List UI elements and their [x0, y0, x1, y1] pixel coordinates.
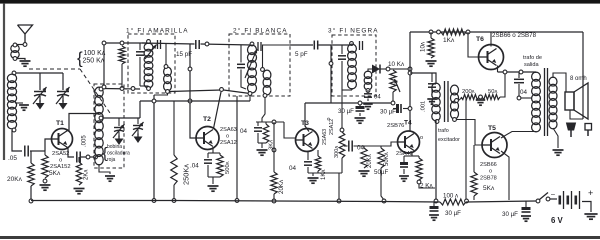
oscillator coil [95, 87, 103, 165]
wire [570, 110, 583, 119]
svg-text:.001: .001 [421, 101, 427, 112]
wire [208, 177, 220, 184]
volume pot 10K [390, 70, 400, 92]
ground [399, 176, 409, 181]
svg-text:30 µF: 30 µF [338, 108, 354, 115]
label T1 [56, 120, 64, 127]
ground [359, 171, 370, 176]
wire [354, 142, 399, 146]
ground [40, 185, 51, 190]
coupling coil L1 [11, 43, 19, 60]
capacitor .05 [8, 146, 28, 163]
IF1 tuning arrow [145, 45, 157, 60]
transistor T4 [398, 131, 420, 153]
wire osc top [103, 88, 140, 91]
wire [342, 90, 352, 103]
node [466, 30, 470, 34]
wire supply right rail [410, 31, 583, 33]
label T3 [301, 120, 309, 127]
svg-text:osciladora: osciladora [107, 151, 130, 157]
resistor 100ohm [440, 193, 466, 206]
wire [12, 130, 22, 151]
capacitor .005 [77, 135, 88, 163]
svg-text:3° FI NEGRA: 3° FI NEGRA [328, 27, 379, 35]
node bus [465, 199, 469, 203]
svg-text:.005: .005 [82, 135, 88, 147]
ground [134, 134, 143, 144]
wire drop 190 [188, 44, 197, 138]
wire T1 collector [69, 114, 99, 132]
svg-text:+: + [588, 188, 593, 198]
driver transformer primary [432, 83, 440, 121]
wire [319, 44, 354, 46]
node osc tap1 [99, 87, 103, 91]
svg-text:04: 04 [289, 165, 297, 172]
wire T2 collector [214, 92, 222, 129]
node bus [337, 199, 341, 203]
svg-text:2SB76: 2SB76 [387, 123, 404, 129]
speaker [565, 83, 588, 119]
resistor 50 [482, 89, 500, 100]
svg-text:T5: T5 [488, 125, 496, 132]
svg-text:5Kʌ: 5Kʌ [49, 170, 61, 177]
node [517, 96, 521, 100]
driver transformer secondary [451, 85, 459, 119]
wire IF3 left [329, 45, 333, 103]
label 2SA63 [220, 127, 237, 146]
wire [500, 72, 505, 97]
capacitor 30uF [338, 105, 365, 116]
label 2SA52 [50, 151, 71, 170]
capacitor 15pF [176, 40, 199, 58]
ground [308, 178, 319, 183]
svg-text:T6: T6 [476, 36, 484, 43]
svg-text:04: 04 [374, 95, 381, 101]
wire IF2 drop [236, 96, 238, 200]
node [358, 101, 362, 105]
svg-text:2SB78: 2SB78 [480, 176, 497, 182]
wire T3 collector [305, 103, 309, 132]
wire [30, 150, 45, 152]
ground [476, 100, 485, 105]
resistor 1K rail [441, 29, 466, 44]
svg-text:2 Kʌ: 2 Kʌ [420, 183, 433, 190]
wire supply [104, 42, 148, 44]
node bus [272, 199, 276, 203]
svg-text:2SA152: 2SA152 [50, 164, 71, 170]
wire [553, 73, 566, 92]
ground [429, 215, 439, 220]
svg-text:2° FI BLANCA: 2° FI BLANCA [233, 27, 288, 35]
node bus [172, 199, 176, 203]
node bus [382, 199, 386, 203]
wire [392, 92, 394, 103]
IF2 primary coil [248, 42, 257, 95]
svg-text:salida: salida [524, 62, 540, 68]
svg-text:.05: .05 [8, 155, 17, 162]
svg-text:20Kʌ: 20Kʌ [7, 176, 23, 183]
resistor 2K [76, 157, 89, 185]
svg-text:50Kʌ: 50Kʌ [384, 152, 390, 166]
IF3 box [332, 35, 376, 96]
wire [139, 101, 141, 118]
capacitor .001 [421, 73, 437, 112]
label 2 FI BLANCA [233, 27, 288, 35]
capacitor .04 det [364, 90, 381, 101]
wire mid bus [140, 100, 250, 102]
svg-text:50ʌ: 50ʌ [488, 89, 497, 95]
ground [74, 189, 85, 194]
left margin line [3, 4, 5, 160]
wire T4 emitter [404, 152, 419, 156]
label 2SB66 b [480, 162, 497, 182]
node [120, 87, 124, 91]
resistor 200 [461, 89, 479, 100]
ground battery [584, 214, 597, 219]
diode detector [368, 65, 394, 74]
ground [257, 150, 268, 155]
svg-text:2SA12: 2SA12 [220, 140, 237, 146]
IF3 core [360, 41, 363, 50]
variable capacitor CV1 [33, 73, 47, 104]
svg-text:roja: roja [107, 157, 116, 163]
gang dashed link [29, 69, 110, 113]
svg-text:2SA12: 2SA12 [329, 119, 335, 135]
wire [498, 71, 537, 73]
label 8 ohm [570, 76, 587, 82]
wire [308, 173, 342, 176]
svg-text:.04: .04 [190, 163, 199, 170]
transistor T6 [479, 45, 504, 70]
wire [262, 97, 265, 122]
IF2 secondary coil [261, 68, 271, 98]
node [479, 95, 483, 99]
wire [15, 102, 23, 104]
ferrite antenna coil [7, 71, 16, 132]
trimmer capacitor CT2 [132, 118, 144, 136]
IF1 box [128, 34, 175, 93]
svg-text:200ʌ: 200ʌ [462, 89, 475, 95]
svg-text:1Kʌ: 1Kʌ [321, 170, 327, 180]
wire [99, 164, 110, 174]
capacitor 30uF d [502, 202, 531, 219]
resistor 1K T3 [315, 150, 327, 180]
svg-text:1Kʌ: 1Kʌ [443, 37, 455, 44]
transistor T5 [482, 133, 507, 158]
svg-text:04: 04 [520, 89, 528, 96]
ground [521, 216, 531, 221]
label 2SB66 o 2SB78 [492, 32, 537, 39]
wire T5 emitter [501, 132, 536, 139]
svg-text:30 µF: 30 µF [502, 211, 518, 218]
label 2SB76 T4 [387, 120, 412, 130]
svg-text:04: 04 [240, 128, 248, 135]
node [435, 120, 439, 124]
node [408, 71, 412, 75]
transistor T2 [196, 127, 219, 150]
antenna [18, 25, 33, 42]
wire [521, 97, 532, 99]
capacitor 50uF [374, 156, 408, 176]
label 6V [551, 216, 564, 225]
output transformer primary [532, 72, 541, 132]
wire [154, 93, 168, 95]
svg-text:20Kʌ: 20Kʌ [278, 179, 285, 194]
ground [115, 136, 124, 146]
node [408, 107, 412, 111]
label T6 [476, 36, 484, 43]
resistor 250K [171, 101, 191, 199]
svg-text:1° FI AMARILLA: 1° FI AMARILLA [126, 27, 189, 35]
transistor T3 [296, 129, 319, 152]
wire T4 collector [409, 32, 411, 132]
label T5 [488, 125, 496, 132]
svg-text:–: – [551, 191, 555, 198]
wire [201, 44, 253, 45]
svg-text:10 Kʌ: 10 Kʌ [388, 61, 405, 68]
wire [17, 59, 25, 61]
capacitor 5pF [295, 41, 318, 59]
svg-text:o: o [59, 158, 62, 164]
node [205, 42, 209, 46]
wire [17, 44, 23, 46]
node osc tap2 [99, 116, 103, 120]
capacitor .04 T2 [190, 153, 212, 177]
IF2 tuning arrow [245, 49, 257, 78]
label 100K 250K [77, 49, 106, 68]
node [519, 70, 523, 74]
IF1 primary coil [144, 40, 153, 91]
svg-text:100 Kʌ: 100 Kʌ [84, 50, 106, 57]
label trafo excitador [438, 128, 460, 143]
wire [16, 72, 63, 74]
wire [142, 43, 195, 44]
ground [20, 61, 31, 66]
IF2 core [258, 42, 261, 51]
label trafo de salida [523, 55, 542, 68]
resistor 10ohm [420, 30, 435, 58]
wire [344, 145, 348, 147]
resistor 300 [334, 103, 345, 173]
label bobina osciladora roja [103, 144, 131, 163]
wire to bus [465, 99, 467, 200]
node bus-20K [29, 199, 33, 203]
svg-text:bobina: bobina [107, 144, 122, 150]
svg-text:250 Kʌ: 250 Kʌ [83, 58, 105, 65]
node [386, 67, 390, 71]
node osc tap3 [94, 155, 98, 159]
wire [550, 198, 557, 200]
wire T1 emitter [68, 148, 74, 158]
svg-text:20Kʌ: 20Kʌ [367, 154, 373, 168]
ground [363, 104, 372, 109]
svg-text:30 µF: 30 µF [445, 210, 461, 217]
wire right rail drop [582, 32, 584, 119]
bottom bus [31, 201, 440, 203]
resistor bias [119, 41, 125, 88]
wire [553, 128, 558, 148]
label 2SA63 rot [322, 118, 335, 146]
IF3 primary coil [348, 42, 357, 90]
capacitor 30uF b [380, 104, 410, 116]
ground [208, 186, 219, 191]
wire [466, 201, 536, 202]
IF3 secondary coil [364, 71, 372, 92]
ground [427, 99, 436, 104]
resistor 20K [7, 151, 34, 199]
battery B1 [559, 191, 580, 209]
driver transformer core [445, 81, 449, 122]
wire [249, 95, 251, 101]
phone jack [567, 123, 592, 137]
wire T5 collector [501, 151, 509, 200]
svg-text:trafo: trafo [438, 128, 449, 134]
wire [410, 73, 436, 84]
switch [536, 193, 550, 203]
svg-text:T4: T4 [404, 120, 412, 127]
svg-text:2Kʌ: 2Kʌ [84, 170, 90, 180]
oscillator coil box [94, 84, 124, 168]
svg-text:excitador: excitador [438, 137, 460, 143]
svg-text:2SA63: 2SA63 [322, 129, 328, 145]
wire T5 base feed [453, 118, 483, 145]
svg-text:5 pF: 5 pF [295, 51, 308, 58]
svg-text:2SA52: 2SA52 [52, 151, 69, 157]
node bus [152, 199, 156, 203]
IF1 secondary coil [164, 65, 172, 94]
node [152, 99, 156, 103]
label T2 [203, 116, 211, 123]
node [272, 120, 276, 124]
wire T3 base [284, 122, 296, 138]
wire T2 emitter [208, 147, 220, 153]
label minus [551, 191, 555, 198]
svg-text:300ʌ: 300ʌ [334, 146, 340, 158]
svg-text:100 ʌ: 100 ʌ [443, 193, 459, 200]
node [131, 87, 135, 91]
ground [553, 150, 564, 155]
resistor 10K [361, 146, 373, 168]
capacitor IF1 tank [136, 43, 144, 86]
node [86, 155, 90, 159]
IF2 box [229, 34, 290, 96]
wire trimmer bus [103, 117, 140, 119]
node sec tap [455, 98, 462, 103]
wire T6 emitter [497, 66, 499, 73]
capacitor 30uF c [430, 202, 462, 217]
svg-text:2SB66 o 2SB78: 2SB66 o 2SB78 [492, 32, 537, 39]
capacitor IF2 tank [237, 45, 246, 89]
resistor 2K T4 [416, 156, 435, 190]
svg-text:6 V: 6 V [551, 216, 564, 225]
label 3 FI NEGRA [328, 27, 379, 35]
trimmer capacitor CT1 [113, 118, 125, 138]
resistor 5K T5 [471, 145, 495, 200]
transistor T1 [52, 129, 73, 150]
svg-text:10ʌ: 10ʌ [420, 41, 427, 52]
svg-text:o: o [226, 134, 229, 140]
top border bar [0, 0, 600, 4]
wire v104 [102, 41, 106, 89]
capacitor .04 agc [240, 122, 262, 143]
bottom border bar [0, 236, 600, 239]
wire det bus [305, 102, 393, 104]
svg-text:T1: T1 [56, 120, 64, 127]
wire [394, 67, 412, 71]
ground [426, 61, 437, 66]
resistor 5K [42, 151, 61, 183]
svg-text:o: o [420, 135, 423, 141]
ground [19, 105, 29, 110]
ground [105, 176, 115, 181]
node bus [434, 199, 438, 203]
capacitor 04 T3 [289, 151, 312, 174]
node [503, 70, 507, 74]
capacitor .04 out [514, 72, 528, 96]
svg-text:5Kʌ: 5Kʌ [483, 185, 495, 192]
wire [582, 202, 591, 213]
wire to bus [153, 95, 155, 200]
svg-text:o: o [489, 169, 492, 175]
node [437, 30, 441, 34]
svg-text:50µF: 50µF [374, 169, 388, 176]
svg-text:T2: T2 [203, 116, 211, 123]
wire T6 base [468, 32, 481, 57]
svg-text:8 omh: 8 omh [570, 76, 587, 82]
node bus [235, 199, 239, 203]
resistor 3K [263, 122, 274, 150]
svg-text:trafo de: trafo de [523, 55, 542, 61]
svg-text:2SA63: 2SA63 [220, 127, 237, 133]
antenna jack top [23, 43, 27, 47]
label 10K pot [388, 61, 405, 68]
wire [256, 121, 284, 123]
resistor 500 [217, 153, 231, 177]
svg-text:500ʌ: 500ʌ [225, 161, 231, 174]
IF1 core [158, 40, 161, 49]
output transformer secondary [549, 77, 557, 129]
ground [59, 100, 68, 110]
wire [165, 44, 167, 65]
wire [435, 120, 437, 200]
node [272, 148, 276, 152]
resistor 20K t3 [271, 122, 285, 199]
wire [338, 173, 340, 199]
variable capacitor CV2 [56, 73, 70, 104]
wire IF1-IF2 link [170, 88, 251, 94]
wire [381, 168, 384, 200]
svg-text:30 µF: 30 µF [380, 109, 396, 116]
resistor 50K [378, 146, 390, 168]
output transformer core [545, 68, 548, 136]
capacitor 04 audio [349, 141, 365, 152]
wire [258, 143, 266, 148]
wire [140, 85, 149, 87]
label 1 FI AMARILLA [126, 27, 189, 35]
wire T6 collector [490, 32, 492, 47]
wire [81, 156, 95, 158]
ground [36, 100, 45, 110]
label plus [588, 188, 593, 198]
ground [355, 118, 366, 123]
wire [263, 45, 291, 68]
wire T1 base [45, 139, 52, 151]
label o 2SA49 [396, 135, 423, 157]
svg-text:2SB66: 2SB66 [480, 162, 497, 168]
wire [290, 44, 313, 46]
node [391, 101, 395, 105]
capacitor tank [338, 45, 346, 90]
